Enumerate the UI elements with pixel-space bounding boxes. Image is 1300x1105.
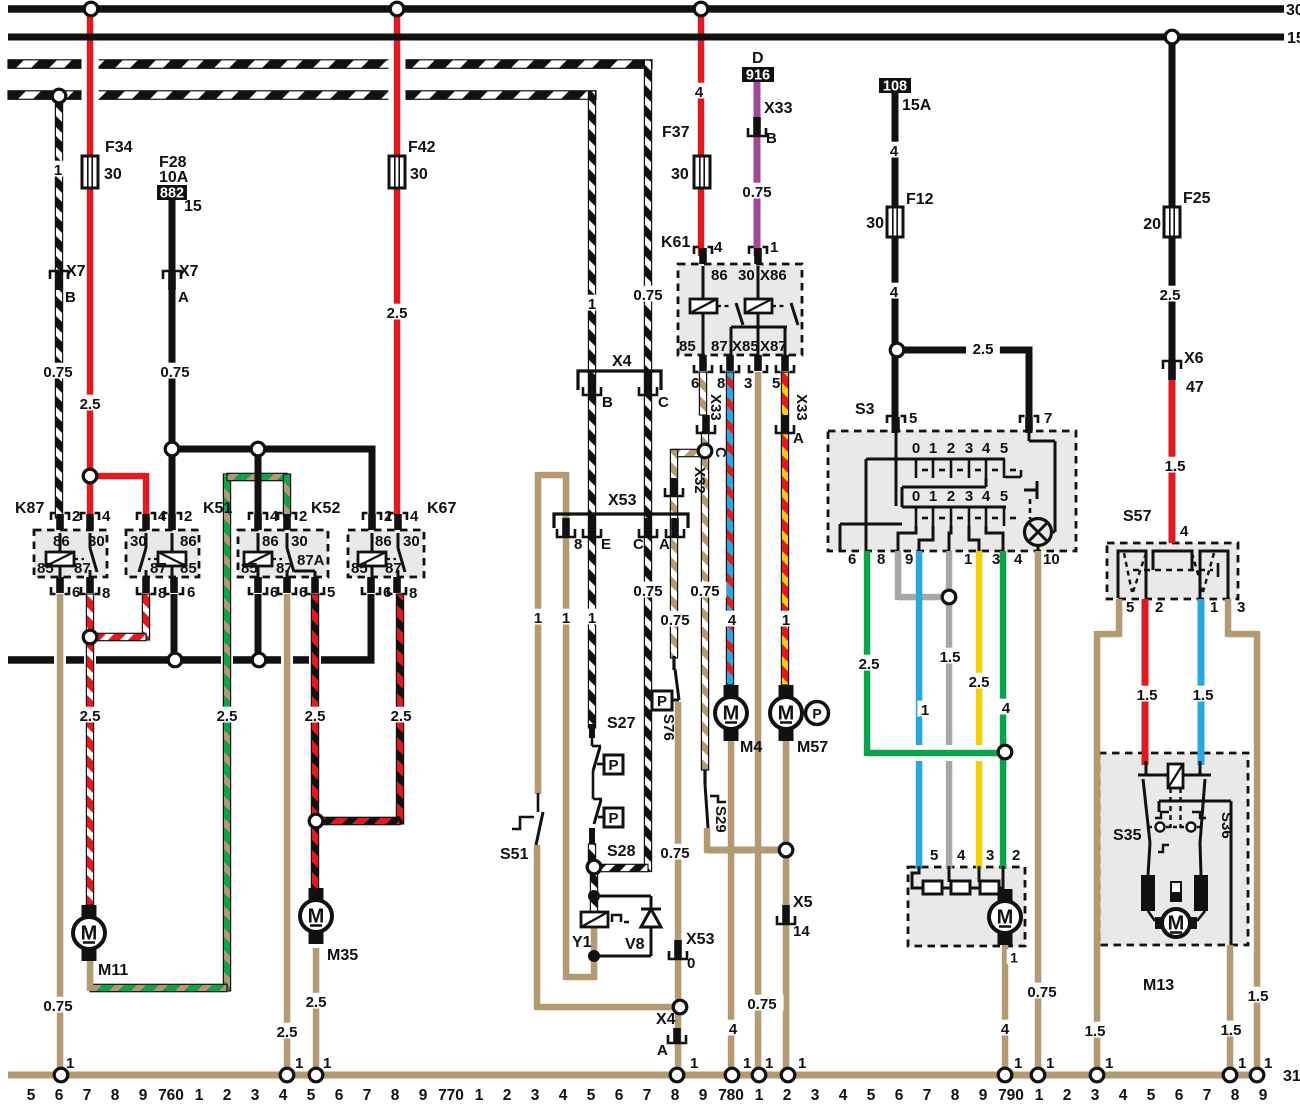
svg-text:47: 47 <box>1186 379 1204 396</box>
svg-text:4: 4 <box>728 612 737 629</box>
svg-text:5: 5 <box>1000 488 1008 505</box>
svg-text:8: 8 <box>574 536 582 553</box>
svg-text:6: 6 <box>848 551 856 568</box>
svg-text:S3: S3 <box>855 401 875 418</box>
svg-text:2: 2 <box>299 508 307 525</box>
svg-text:1.5: 1.5 <box>1193 687 1214 704</box>
svg-text:85: 85 <box>351 560 368 577</box>
svg-text:X53: X53 <box>686 931 715 948</box>
svg-text:2.5: 2.5 <box>391 708 412 725</box>
svg-text:87: 87 <box>711 338 728 355</box>
svg-text:1.5: 1.5 <box>940 649 961 666</box>
svg-text:1: 1 <box>1046 1055 1054 1072</box>
svg-text:2: 2 <box>947 488 955 505</box>
svg-text:2.5: 2.5 <box>305 708 326 725</box>
svg-text:F12: F12 <box>906 191 934 208</box>
svg-text:1: 1 <box>964 551 972 568</box>
svg-text:30: 30 <box>671 166 689 183</box>
svg-text:1: 1 <box>782 612 790 629</box>
svg-text:1: 1 <box>1014 1055 1022 1072</box>
svg-text:6: 6 <box>895 1087 904 1104</box>
svg-text:P: P <box>657 693 667 710</box>
svg-text:F25: F25 <box>1183 190 1211 207</box>
svg-text:87: 87 <box>276 560 293 577</box>
svg-text:882: 882 <box>160 186 184 202</box>
svg-text:30: 30 <box>130 533 147 550</box>
svg-text:1: 1 <box>323 1055 331 1072</box>
svg-text:0.75: 0.75 <box>747 996 776 1013</box>
svg-text:X7: X7 <box>66 263 86 280</box>
svg-text:2.5: 2.5 <box>80 396 101 413</box>
svg-text:5: 5 <box>772 375 780 392</box>
svg-text:86: 86 <box>711 267 728 284</box>
svg-text:C: C <box>712 447 729 458</box>
svg-text:4: 4 <box>839 1087 848 1104</box>
svg-text:20: 20 <box>1143 216 1161 233</box>
svg-text:1: 1 <box>1105 1055 1113 1072</box>
svg-text:760: 760 <box>158 1087 184 1104</box>
svg-text:X7: X7 <box>179 263 199 280</box>
svg-text:5: 5 <box>867 1087 876 1104</box>
svg-text:5: 5 <box>909 410 917 427</box>
svg-text:30: 30 <box>291 533 308 550</box>
svg-text:1.5: 1.5 <box>1165 458 1186 475</box>
svg-text:6: 6 <box>615 1087 624 1104</box>
svg-text:30: 30 <box>738 267 755 284</box>
svg-text:7: 7 <box>643 1087 652 1104</box>
svg-text:M: M <box>81 923 98 945</box>
svg-text:2.5: 2.5 <box>387 305 408 322</box>
svg-text:108: 108 <box>883 79 907 95</box>
svg-text:5: 5 <box>1147 1087 1156 1104</box>
svg-text:1: 1 <box>195 1087 204 1104</box>
svg-text:P: P <box>608 810 618 827</box>
svg-text:A: A <box>793 430 804 447</box>
svg-text:1.5: 1.5 <box>1248 988 1269 1005</box>
svg-text:1: 1 <box>798 1055 806 1072</box>
svg-text:770: 770 <box>438 1087 464 1104</box>
svg-text:6: 6 <box>691 375 699 392</box>
svg-text:1: 1 <box>921 702 929 719</box>
svg-text:30: 30 <box>88 533 105 550</box>
svg-text:M: M <box>308 906 325 928</box>
svg-text:30: 30 <box>1286 2 1300 19</box>
svg-text:4: 4 <box>890 143 899 160</box>
svg-text:2: 2 <box>1063 1087 1072 1104</box>
svg-text:1.5: 1.5 <box>1221 1022 1242 1039</box>
svg-text:7: 7 <box>363 1087 372 1104</box>
svg-text:4: 4 <box>957 847 966 864</box>
svg-text:C: C <box>633 536 644 553</box>
svg-text:780: 780 <box>718 1087 744 1104</box>
svg-text:2: 2 <box>783 1087 792 1104</box>
svg-text:0.75: 0.75 <box>660 612 689 629</box>
svg-text:15: 15 <box>1287 30 1300 47</box>
svg-text:5: 5 <box>327 584 335 601</box>
svg-text:S28: S28 <box>607 843 636 860</box>
svg-text:1: 1 <box>66 1055 74 1072</box>
svg-text:85: 85 <box>679 338 696 355</box>
svg-text:30: 30 <box>866 215 884 232</box>
svg-text:6: 6 <box>1175 1087 1184 1104</box>
svg-text:M: M <box>1168 913 1185 935</box>
svg-text:V8: V8 <box>625 936 645 953</box>
svg-text:4: 4 <box>982 488 991 505</box>
svg-text:85: 85 <box>180 560 197 577</box>
svg-text:86: 86 <box>375 533 392 550</box>
svg-text:86: 86 <box>180 533 197 550</box>
svg-text:1: 1 <box>295 1055 303 1072</box>
svg-text:X4: X4 <box>656 1011 676 1028</box>
svg-text:4: 4 <box>695 84 704 101</box>
svg-text:1: 1 <box>588 610 596 627</box>
svg-text:S57: S57 <box>1123 508 1152 525</box>
svg-text:4: 4 <box>729 1021 738 1038</box>
svg-text:2: 2 <box>184 508 192 525</box>
svg-text:1.5: 1.5 <box>1137 687 1158 704</box>
svg-text:M35: M35 <box>327 947 358 964</box>
svg-text:Y1: Y1 <box>572 934 592 951</box>
svg-text:0.75: 0.75 <box>633 583 662 600</box>
svg-text:4: 4 <box>559 1087 568 1104</box>
svg-text:1: 1 <box>54 162 62 179</box>
svg-text:M57: M57 <box>797 739 828 756</box>
svg-text:6: 6 <box>55 1087 64 1104</box>
svg-text:7: 7 <box>1044 410 1052 427</box>
svg-text:1: 1 <box>690 1055 698 1072</box>
svg-text:5: 5 <box>307 1087 316 1104</box>
svg-text:2.5: 2.5 <box>1160 287 1181 304</box>
svg-text:P: P <box>812 706 821 722</box>
svg-text:8: 8 <box>671 1087 680 1104</box>
svg-text:2: 2 <box>947 440 955 457</box>
svg-text:S36: S36 <box>1218 812 1235 839</box>
svg-text:85: 85 <box>241 560 258 577</box>
svg-text:X6: X6 <box>1184 350 1204 367</box>
svg-text:2.5: 2.5 <box>306 994 327 1011</box>
svg-text:X85: X85 <box>732 338 759 355</box>
svg-text:3: 3 <box>992 551 1000 568</box>
svg-text:A: A <box>659 536 670 553</box>
svg-text:9: 9 <box>979 1087 988 1104</box>
svg-text:9: 9 <box>419 1087 428 1104</box>
svg-text:F37: F37 <box>662 124 690 141</box>
svg-text:4: 4 <box>410 508 419 525</box>
svg-text:X32: X32 <box>691 467 708 494</box>
svg-text:9: 9 <box>139 1087 148 1104</box>
svg-text:10: 10 <box>1043 551 1060 568</box>
svg-text:8: 8 <box>409 585 417 602</box>
svg-text:1: 1 <box>1035 1087 1044 1104</box>
svg-text:5: 5 <box>1000 440 1008 457</box>
svg-text:2: 2 <box>223 1087 232 1104</box>
svg-text:790: 790 <box>998 1087 1024 1104</box>
svg-text:B: B <box>602 394 613 411</box>
svg-text:2: 2 <box>1012 847 1020 864</box>
svg-text:4: 4 <box>982 440 991 457</box>
svg-text:1: 1 <box>929 488 937 505</box>
svg-text:15A: 15A <box>902 97 932 114</box>
svg-text:0.75: 0.75 <box>43 364 72 381</box>
svg-text:1: 1 <box>588 296 596 313</box>
svg-text:S51: S51 <box>500 846 529 863</box>
svg-text:8: 8 <box>111 1087 120 1104</box>
svg-text:M13: M13 <box>1143 977 1174 994</box>
svg-text:2: 2 <box>72 508 80 525</box>
svg-text:1: 1 <box>1238 1055 1246 1072</box>
svg-text:A: A <box>178 289 189 306</box>
svg-text:1: 1 <box>1210 599 1218 616</box>
svg-text:86: 86 <box>262 533 279 550</box>
svg-text:2: 2 <box>503 1087 512 1104</box>
svg-text:87: 87 <box>74 560 91 577</box>
svg-text:8: 8 <box>717 375 725 392</box>
svg-text:1: 1 <box>765 1055 773 1072</box>
svg-text:30: 30 <box>410 166 428 183</box>
svg-text:1.5: 1.5 <box>1085 1023 1106 1040</box>
svg-text:S29: S29 <box>712 806 729 833</box>
svg-text:2.5: 2.5 <box>217 708 238 725</box>
svg-text:3: 3 <box>965 440 973 457</box>
svg-text:4: 4 <box>1001 1021 1010 1038</box>
svg-text:9: 9 <box>1259 1087 1268 1104</box>
svg-text:0.75: 0.75 <box>43 998 72 1015</box>
svg-text:8: 8 <box>1231 1087 1240 1104</box>
svg-text:7: 7 <box>1203 1087 1212 1104</box>
svg-text:B: B <box>65 289 76 306</box>
svg-text:3: 3 <box>531 1087 540 1104</box>
svg-text:5: 5 <box>1126 599 1134 616</box>
svg-text:4: 4 <box>1119 1087 1128 1104</box>
svg-text:1: 1 <box>755 1087 764 1104</box>
svg-text:0.75: 0.75 <box>742 184 771 201</box>
svg-text:1: 1 <box>743 1055 751 1072</box>
svg-text:2.5: 2.5 <box>973 341 994 358</box>
svg-text:0: 0 <box>912 488 920 505</box>
svg-text:0.75: 0.75 <box>160 364 189 381</box>
svg-text:F42: F42 <box>408 139 436 156</box>
svg-text:14: 14 <box>793 923 810 940</box>
svg-text:1: 1 <box>1264 1055 1272 1072</box>
svg-text:3: 3 <box>251 1087 260 1104</box>
svg-text:M: M <box>997 907 1014 929</box>
svg-text:8: 8 <box>951 1087 960 1104</box>
svg-text:S27: S27 <box>607 715 636 732</box>
svg-text:1: 1 <box>562 610 570 627</box>
svg-text:8: 8 <box>877 551 885 568</box>
svg-text:M4: M4 <box>740 739 762 756</box>
svg-text:6: 6 <box>335 1087 344 1104</box>
svg-text:3: 3 <box>744 375 752 392</box>
svg-text:0.75: 0.75 <box>633 287 662 304</box>
svg-text:87A: 87A <box>297 552 325 569</box>
svg-text:1: 1 <box>770 239 778 256</box>
svg-text:S35: S35 <box>1113 827 1142 844</box>
svg-text:86: 86 <box>53 533 70 550</box>
svg-text:2: 2 <box>1155 599 1163 616</box>
svg-text:0.75: 0.75 <box>690 583 719 600</box>
svg-text:B: B <box>766 130 777 147</box>
svg-text:M: M <box>723 703 740 725</box>
svg-text:M11: M11 <box>98 962 128 979</box>
svg-text:30: 30 <box>403 533 420 550</box>
svg-text:X33: X33 <box>793 394 810 421</box>
svg-text:0: 0 <box>687 955 695 972</box>
svg-text:87: 87 <box>150 560 167 577</box>
svg-text:6: 6 <box>187 584 195 601</box>
svg-text:M: M <box>778 703 795 725</box>
svg-text:4: 4 <box>102 508 111 525</box>
svg-text:X33: X33 <box>764 100 793 117</box>
svg-text:4: 4 <box>279 1087 288 1104</box>
svg-text:S76: S76 <box>660 714 677 741</box>
svg-text:3: 3 <box>965 488 973 505</box>
svg-text:X5: X5 <box>793 894 813 911</box>
svg-text:8: 8 <box>102 585 110 602</box>
svg-text:2.5: 2.5 <box>859 656 880 673</box>
svg-text:8: 8 <box>391 1087 400 1104</box>
svg-text:A: A <box>657 1042 668 1059</box>
svg-text:3: 3 <box>1237 599 1245 616</box>
svg-text:4: 4 <box>890 284 899 301</box>
svg-text:3: 3 <box>1091 1087 1100 1104</box>
svg-text:6: 6 <box>72 584 80 601</box>
svg-text:2.5: 2.5 <box>80 708 101 725</box>
svg-text:0.75: 0.75 <box>1027 984 1056 1001</box>
svg-text:4: 4 <box>1180 523 1189 540</box>
svg-text:1: 1 <box>475 1087 484 1104</box>
svg-text:0: 0 <box>912 440 920 457</box>
svg-text:3: 3 <box>811 1087 820 1104</box>
svg-text:2.5: 2.5 <box>969 674 990 691</box>
svg-text:916: 916 <box>746 68 770 84</box>
svg-text:1: 1 <box>1010 950 1018 966</box>
svg-text:7: 7 <box>923 1087 932 1104</box>
svg-text:K67: K67 <box>427 500 456 517</box>
svg-text:5: 5 <box>27 1087 36 1104</box>
svg-text:E: E <box>601 536 611 553</box>
svg-text:C: C <box>658 394 669 411</box>
svg-text:9: 9 <box>699 1087 708 1104</box>
svg-text:9: 9 <box>905 551 913 568</box>
svg-text:K51: K51 <box>203 500 232 517</box>
svg-text:15: 15 <box>184 198 202 215</box>
svg-text:85: 85 <box>37 560 54 577</box>
svg-text:X86: X86 <box>760 267 787 284</box>
svg-text:X53: X53 <box>608 492 637 509</box>
svg-text:D: D <box>752 50 764 67</box>
svg-text:1: 1 <box>929 440 937 457</box>
svg-text:7: 7 <box>83 1087 92 1104</box>
svg-text:4: 4 <box>714 239 723 256</box>
svg-text:5: 5 <box>930 847 938 864</box>
svg-text:10A: 10A <box>159 169 189 186</box>
svg-text:0.75: 0.75 <box>660 845 689 862</box>
svg-text:X4: X4 <box>612 353 632 370</box>
svg-text:1: 1 <box>534 610 542 627</box>
svg-text:P: P <box>608 757 618 774</box>
svg-text:5: 5 <box>587 1087 596 1104</box>
svg-text:30: 30 <box>104 166 122 183</box>
svg-text:4: 4 <box>1002 700 1011 717</box>
svg-text:K61: K61 <box>661 234 690 251</box>
svg-text:3: 3 <box>986 847 994 864</box>
svg-text:K52: K52 <box>311 500 340 517</box>
svg-text:F34: F34 <box>105 139 133 156</box>
svg-text:2.5: 2.5 <box>277 1024 298 1041</box>
svg-text:31: 31 <box>1283 1068 1300 1085</box>
svg-text:87: 87 <box>385 560 402 577</box>
svg-text:X87: X87 <box>760 338 787 355</box>
svg-text:K87: K87 <box>15 500 44 517</box>
svg-text:4: 4 <box>1014 551 1023 568</box>
